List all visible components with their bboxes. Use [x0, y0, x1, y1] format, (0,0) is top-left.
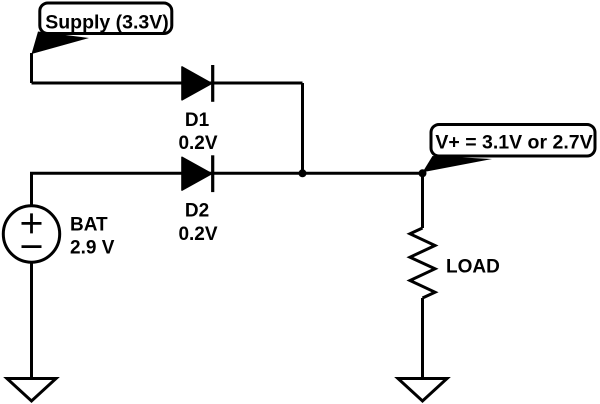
- callout tail: Supply: [32, 32, 90, 55]
- value 0.2V (D2): [178, 224, 217, 245]
- wire: LOAD resistor to ground: [421, 298, 424, 378]
- svg-text:0.2V: 0.2V: [178, 224, 217, 245]
- value 0.2V (D1): [178, 133, 217, 154]
- svg-text:2.9 V: 2.9 V: [70, 238, 115, 259]
- label D1: [185, 110, 210, 131]
- callout tail: V+: [423, 156, 493, 172]
- value 2.9 V: [70, 238, 115, 259]
- diode D1: [182, 65, 213, 102]
- label D2: [185, 200, 209, 221]
- wire: battery to ground: [30, 262, 33, 378]
- label BAT: [70, 214, 108, 235]
- wire: middle rail from battery corner through D2 to V+ node: [32, 173, 423, 205]
- callout box: V+ = 3.1V or 2.7V: [431, 125, 595, 157]
- svg-text:LOAD: LOAD: [446, 257, 500, 278]
- wire: top rail from supply corner through D1 to right corner, down to node: [32, 83, 303, 173]
- diode D2: [182, 155, 213, 192]
- callout box: Supply (3.3V): [40, 3, 172, 34]
- junction node: D1/D2 cathodes join: [299, 169, 307, 177]
- wire: V+ node down to LOAD resistor: [421, 173, 424, 228]
- svg-text:V+ = 3.1V or 2.7V: V+ = 3.1V or 2.7V: [435, 131, 592, 153]
- battery BAT (voltage source): [3, 206, 59, 262]
- node V+ junction dot: [419, 169, 427, 177]
- svg-text:D1: D1: [185, 110, 210, 131]
- svg-text:Supply (3.3V): Supply (3.3V): [45, 11, 169, 33]
- ground (battery): [7, 379, 56, 402]
- ground (load): [398, 379, 447, 402]
- svg-text:0.2V: 0.2V: [178, 133, 217, 154]
- resistor LOAD: [410, 228, 435, 298]
- svg-text:BAT: BAT: [70, 214, 108, 235]
- label LOAD: [446, 257, 500, 278]
- wire: supply callout drop to top rail: [30, 53, 33, 83]
- svg-text:D2: D2: [185, 200, 209, 221]
